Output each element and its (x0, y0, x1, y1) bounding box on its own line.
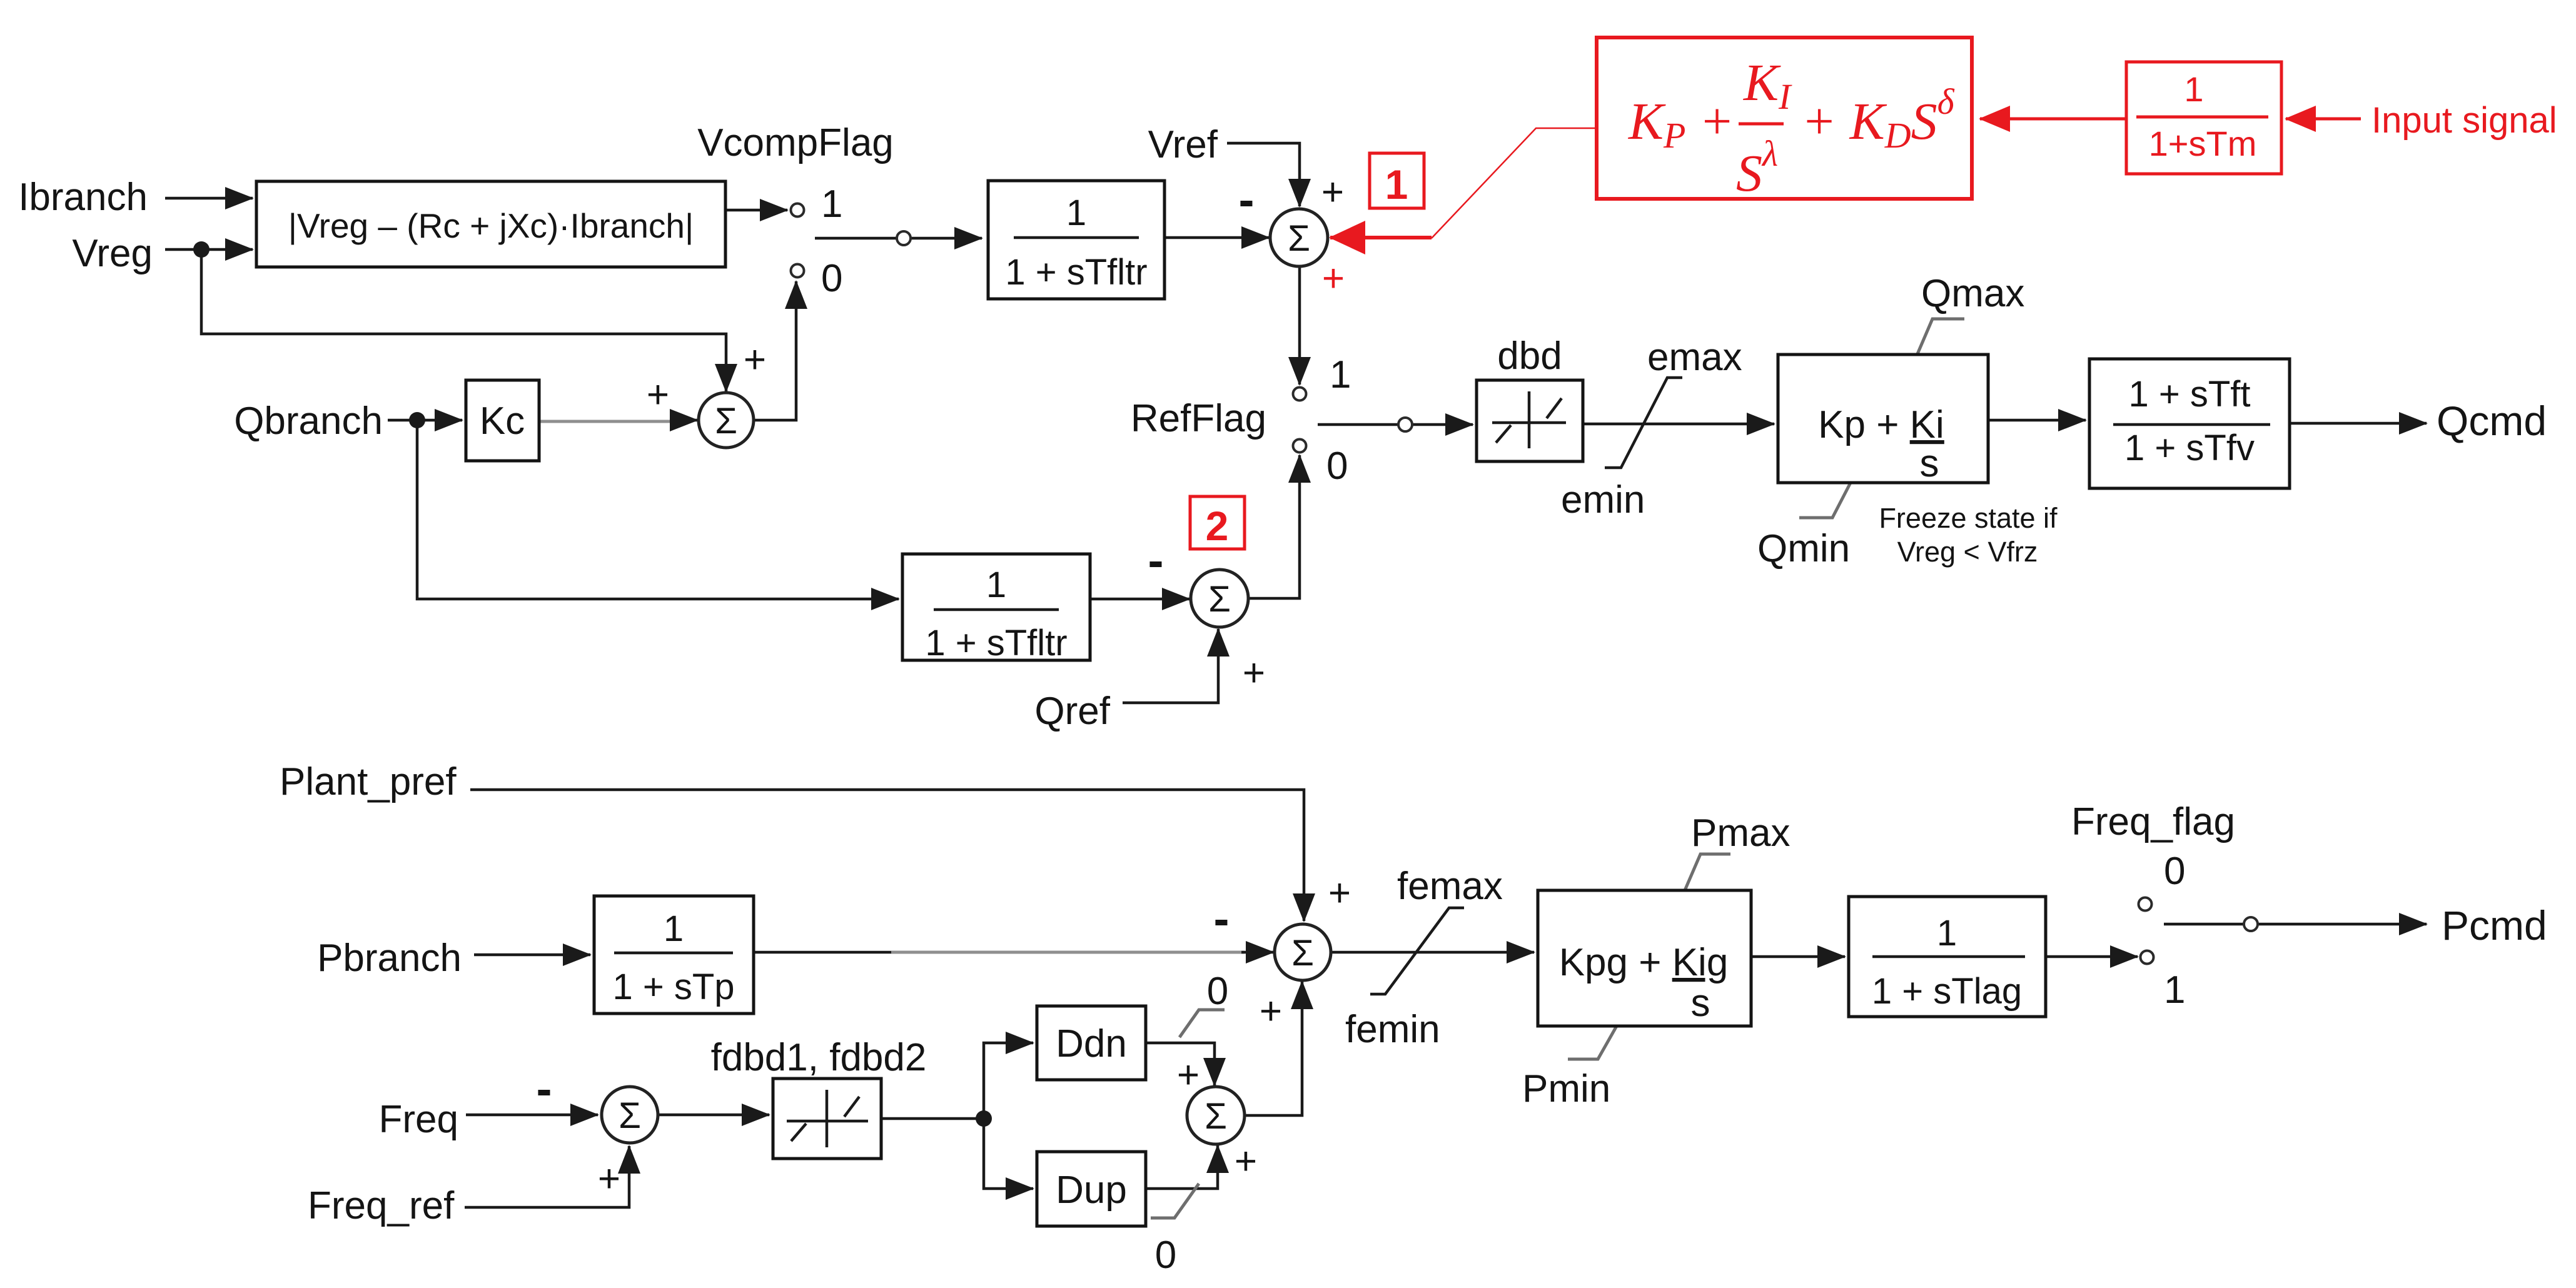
wire Kc to summer (gray) (540, 420, 675, 423)
summer Kc sum (699, 393, 754, 448)
wire RefFlag common line (1318, 423, 1473, 426)
svg-text:Σ: Σ (1208, 579, 1231, 620)
wire fdbd output junction (881, 1117, 984, 1120)
svg-text:+: + (647, 373, 669, 416)
svg-text:Vreg: Vreg (72, 232, 153, 275)
node circle on VcompFlag common line (897, 231, 911, 245)
svg-text:emax: emax (1647, 336, 1742, 379)
block red fractional PID (1597, 38, 1972, 199)
red indicator box 1 (1370, 153, 1424, 208)
svg-text:1: 1 (821, 183, 842, 226)
svg-text:Σ: Σ (1288, 218, 1310, 259)
svg-text:Pmin: Pmin (1522, 1067, 1610, 1110)
wire filter 2 output to summer 2 (1090, 598, 1190, 601)
svg-text:1 + sTp: 1 + sTp (612, 967, 734, 1007)
svg-text:1+sTm: 1+sTm (2149, 124, 2257, 163)
svg-text:1: 1 (1330, 353, 1351, 396)
svg-text:-: - (1214, 892, 1230, 945)
fdbd glyph (787, 1090, 868, 1147)
svg-text:0: 0 (1207, 970, 1228, 1013)
callout Ddn zero limit (1179, 1010, 1225, 1037)
wire Vreg feedback to summer (201, 249, 726, 391)
svg-text:Σ: Σ (715, 401, 737, 441)
svg-text:s: s (1920, 442, 1939, 485)
wire Freq input (466, 1114, 598, 1117)
wire sTlag output to Freq_flag contact 1 (2046, 955, 2138, 958)
svg-text:Freeze state if: Freeze state if (1879, 502, 2058, 534)
dbd glyph (1492, 391, 1566, 448)
svg-text:1 + sTfltr: 1 + sTfltr (925, 623, 1067, 663)
switch Freq_flag contact 1 (2141, 951, 2154, 964)
svg-text:0: 0 (1326, 445, 1348, 488)
svg-text:Vreg < Vfrz: Vreg < Vfrz (1897, 536, 2038, 568)
svg-text:dbd: dbd (1497, 335, 1562, 378)
svg-text:Vref: Vref (1148, 123, 1218, 166)
wire dbd output to Kp block (1583, 423, 1774, 426)
svg-text:1 + sTfltr: 1 + sTfltr (1005, 252, 1147, 293)
wire Ddn output to summer 5 (1146, 1043, 1215, 1085)
wire VcompFlag box output to contact 1 (725, 209, 787, 212)
wire Vreg input (165, 248, 253, 251)
callout Qmax (1917, 319, 1964, 354)
red sTm fraction (2149, 69, 2257, 163)
wire Kpg block to sTlag block (1751, 955, 1845, 958)
callout Pmin (1568, 1026, 1617, 1059)
value filter 1 fraction (1005, 193, 1147, 293)
svg-text:1 + sTft: 1 + sTft (2128, 374, 2250, 415)
svg-text:1 + sTlag: 1 + sTlag (1872, 971, 2022, 1012)
wire red Input signal (2286, 118, 2361, 121)
svg-text:+: + (1177, 1054, 1200, 1097)
svg-text:1: 1 (2164, 969, 2185, 1012)
summer 1 voltage error (1270, 209, 1328, 266)
block Ddn (1037, 1006, 1146, 1080)
node circle on Pcmd line (2244, 917, 2258, 931)
wire summer 2 output to RefFlag contact 0 (1248, 455, 1300, 598)
wire Qref input (1123, 629, 1218, 703)
svg-text:+: + (1260, 990, 1282, 1033)
svg-text:-: - (537, 1062, 552, 1115)
block dbd deadband (1477, 380, 1583, 461)
wire summer 1 output to RefFlag contact 1 (1298, 266, 1301, 385)
svg-text:femin: femin (1345, 1008, 1440, 1051)
svg-text:Input signal: Input signal (2371, 100, 2557, 141)
wire junction to Dup (984, 1119, 1033, 1189)
svg-text:Kp + Ki: Kp + Ki (1818, 403, 1944, 446)
svg-text:1: 1 (1937, 913, 1957, 953)
switch RefFlag contact 0 (1293, 440, 1306, 453)
summer 3 frequency error (602, 1087, 658, 1143)
svg-text:2: 2 (1206, 503, 1229, 549)
svg-text:Qbranch: Qbranch (234, 400, 383, 443)
value filter 2 fraction (925, 565, 1067, 663)
switch Freq_flag contact 0 (2139, 898, 2152, 911)
svg-text:0: 0 (1155, 1234, 1176, 1277)
svg-text:Pmax: Pmax (1691, 812, 1790, 855)
summer 2 Qref error (1191, 570, 1248, 627)
node Qbranch junction (409, 412, 425, 428)
svg-text:1: 1 (1385, 161, 1408, 208)
limiter emax emin (1605, 378, 1682, 468)
block PI controller Kp+Ki/s (1778, 355, 1988, 483)
svg-text:|Vreg – (Rc + jXc)·Ibranch|: |Vreg – (Rc + jXc)·Ibranch| (288, 206, 694, 245)
block Vcomp magnitude (256, 181, 725, 267)
wire Qbranch input (388, 419, 462, 422)
wire red PID block to summer 1 (1432, 128, 1597, 238)
svg-text:Plant_pref: Plant_pref (280, 760, 457, 803)
svg-text:Pbranch: Pbranch (317, 937, 462, 980)
svg-text:Kc: Kc (480, 400, 525, 443)
wire Freq_flag common line to Pcmd (2164, 923, 2427, 926)
svg-text:1: 1 (986, 565, 1006, 605)
svg-text:1: 1 (664, 908, 684, 949)
svg-text:1: 1 (1066, 193, 1086, 233)
svg-text:+: + (744, 338, 766, 381)
svg-text:+ KDSδ: + KDSδ (1801, 81, 1955, 156)
wire Dup output to summer 5 (1146, 1145, 1218, 1189)
svg-text:Kpg + Kig: Kpg + Kig (1559, 941, 1729, 984)
svg-text:Ibranch: Ibranch (18, 176, 148, 219)
svg-text:Qmin: Qmin (1757, 527, 1850, 570)
value sTlag fraction (1872, 913, 2025, 1012)
block 1/(1+sTlag) (1849, 897, 2046, 1017)
block 1/(1+sTp) (594, 896, 754, 1014)
value lead-lag fraction (2113, 374, 2270, 468)
wire summer 5 output to summer 4 (1245, 982, 1302, 1115)
svg-text:femax: femax (1397, 865, 1503, 908)
svg-text:emin: emin (1561, 478, 1645, 521)
wire summer 3 output to fdbd (658, 1114, 769, 1117)
svg-text:Pcmd: Pcmd (2442, 902, 2547, 948)
svg-text:Ddn: Ddn (1056, 1022, 1127, 1065)
node Vreg junction (193, 241, 210, 258)
svg-text:VcompFlag: VcompFlag (697, 121, 894, 164)
wire Freq_ref input (465, 1146, 629, 1207)
svg-text:Qref: Qref (1034, 690, 1110, 733)
svg-text:-: - (1148, 534, 1164, 586)
wire summer 4 output to Kpg block (1331, 951, 1534, 954)
block red measurement filter 1/(1+sTm) (2126, 62, 2281, 174)
svg-text:+: + (1243, 652, 1265, 695)
value Kp + Ki/s (1818, 403, 1944, 485)
block lead-lag (1+sTft)/(1+sTfv) (2089, 359, 2290, 488)
wire sTp output to summer 4 (gray) (754, 951, 894, 954)
svg-text:Qmax: Qmax (1921, 272, 2024, 315)
block fdbd deadband (773, 1079, 881, 1159)
value Kpg + Kig/s (1559, 941, 1729, 1025)
wire filter 1 output to summer 1 (1164, 236, 1269, 239)
node fdbd output junction (976, 1110, 992, 1127)
red formula fraction bar (1739, 123, 1784, 126)
block Dup (1037, 1152, 1146, 1226)
svg-text:+: + (1235, 1140, 1257, 1183)
svg-text:fdbd1, fdbd2: fdbd1, fdbd2 (711, 1036, 927, 1079)
svg-text:Σ: Σ (619, 1095, 641, 1136)
switch VcompFlag contact 1 (791, 204, 804, 217)
switch RefFlag contact 1 (1293, 388, 1306, 401)
switch VcompFlag contact 0 (791, 264, 804, 278)
limiter femax femin (1370, 908, 1464, 994)
svg-text:0: 0 (821, 257, 842, 300)
summer 5 droop sum (1187, 1087, 1245, 1144)
value sTp fraction (612, 908, 734, 1007)
svg-text:RefFlag: RefFlag (1131, 397, 1266, 440)
svg-text:+: + (598, 1157, 620, 1200)
svg-text:+: + (1328, 872, 1351, 915)
wire VcompFlag common line (815, 237, 982, 240)
svg-text:Dup: Dup (1056, 1169, 1127, 1212)
wire Vref input (1227, 143, 1300, 206)
callout Pmax (1685, 854, 1730, 890)
block Kc (466, 380, 539, 461)
block PI controller Kpg+Kig/s (1538, 890, 1751, 1026)
svg-text:Freq_flag: Freq_flag (2071, 800, 2235, 843)
callout Qmin (1799, 483, 1851, 518)
svg-text:Freq: Freq (379, 1098, 458, 1141)
summer 4 power error (1275, 924, 1331, 980)
node circle on RefFlag common line (1398, 418, 1412, 431)
red indicator box 2 (1190, 496, 1245, 549)
svg-text:Σ: Σ (1291, 933, 1314, 974)
wire Qbranch down to filter 2 (417, 420, 899, 599)
svg-text:1 + sTfv: 1 + sTfv (2124, 428, 2255, 468)
block filter 2 1/(1+sTfltr) (902, 554, 1090, 660)
svg-text:Freq_ref: Freq_ref (308, 1184, 455, 1227)
svg-text:s: s (1691, 982, 1710, 1025)
wire Ibranch input (165, 197, 253, 200)
wire summer Kc output to contact 0 (754, 281, 796, 420)
svg-text:Qcmd: Qcmd (2437, 398, 2547, 444)
wire Pbranch input (474, 953, 590, 957)
svg-text:-: - (1239, 173, 1255, 226)
wire Plant_pref input (470, 790, 1304, 921)
svg-text:1: 1 (2184, 69, 2203, 109)
svg-text:+: + (1322, 257, 1345, 300)
wire Kp block to lead-lag block (1988, 419, 2086, 422)
callout Dup zero limit (1151, 1184, 1199, 1218)
wire red sTm to PID block (1980, 118, 2126, 121)
wire junction to Ddn (984, 1043, 1033, 1119)
svg-text:+: + (1321, 171, 1344, 214)
wire lead-lag output Qcmd (2290, 422, 2427, 425)
red sTm fraction bar (2136, 116, 2268, 119)
red formula Kp + Ki/S + Kd S (1628, 54, 1955, 203)
svg-text:0: 0 (2164, 850, 2185, 893)
block filter 1 1/(1+sTfltr) (988, 181, 1164, 299)
svg-text:Σ: Σ (1205, 1096, 1227, 1137)
